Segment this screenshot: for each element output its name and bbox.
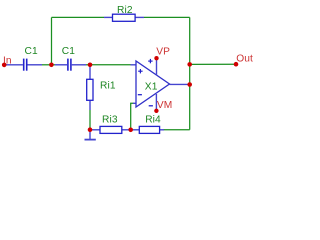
wire node A up to top rail (51, 17, 53, 64)
node Out terminal (236, 54, 253, 65)
wire bottom rail right corner to Ri4 (164, 129, 190, 131)
pin VP (148, 46, 170, 75)
node dot: out rail node (187, 62, 192, 67)
svg-text:Ri1: Ri1 (100, 81, 116, 92)
node dot: Out terminal (234, 62, 239, 67)
svg-text:Out: Out (236, 54, 253, 65)
svg-text:Ri2: Ri2 (117, 5, 133, 16)
resistor Ri1 (87, 65, 116, 110)
svg-text:C1: C1 (25, 46, 38, 57)
node dot: inverting input junction (128, 128, 133, 133)
wire Ri1 to ground junction (89, 110, 91, 130)
svg-text:Ri4: Ri4 (145, 114, 161, 125)
wire right vertical (output net) (189, 17, 191, 129)
svg-text:C1: C1 (62, 46, 75, 57)
wire node A to C1b (51, 64, 55, 66)
wire to Out terminal (190, 63, 236, 65)
node dot: VM pin (154, 109, 158, 113)
node dot: ground junction (88, 127, 93, 132)
resistor Ri4 (131, 114, 164, 133)
resistor Ri2 (104, 5, 144, 21)
wire op-amp output (170, 83, 190, 85)
pin VM (149, 94, 173, 111)
node dot: node A between capacitors (49, 63, 54, 68)
capacitor C1 (first) (24, 46, 42, 71)
capacitor C1 (second) (62, 46, 86, 71)
wire node C up to op-amp - input (131, 103, 134, 130)
+ input marker (138, 70, 142, 72)
node dot: In terminal (2, 63, 7, 68)
wire C1b to node B (86, 64, 90, 66)
- input marker (138, 94, 142, 96)
wire node B to op-amp + input (90, 64, 131, 66)
wire C1a to node A (42, 64, 51, 66)
wire top rail right (144, 16, 190, 18)
svg-text:Ri3: Ri3 (102, 114, 118, 125)
svg-text:VP: VP (156, 46, 170, 57)
ground (85, 130, 96, 140)
wire In to C1a (4, 64, 23, 66)
node dot: node B op-amp + input net (88, 63, 93, 68)
op-amp X1 (136, 61, 170, 107)
wire top rail left (52, 16, 105, 18)
node dot: op-amp output node (187, 82, 192, 87)
resistor Ri3 (91, 114, 129, 133)
node In terminal (3, 55, 12, 66)
svg-text:X1: X1 (145, 82, 158, 93)
svg-text:VM: VM (157, 100, 172, 111)
node dot: VP pin (154, 56, 158, 60)
